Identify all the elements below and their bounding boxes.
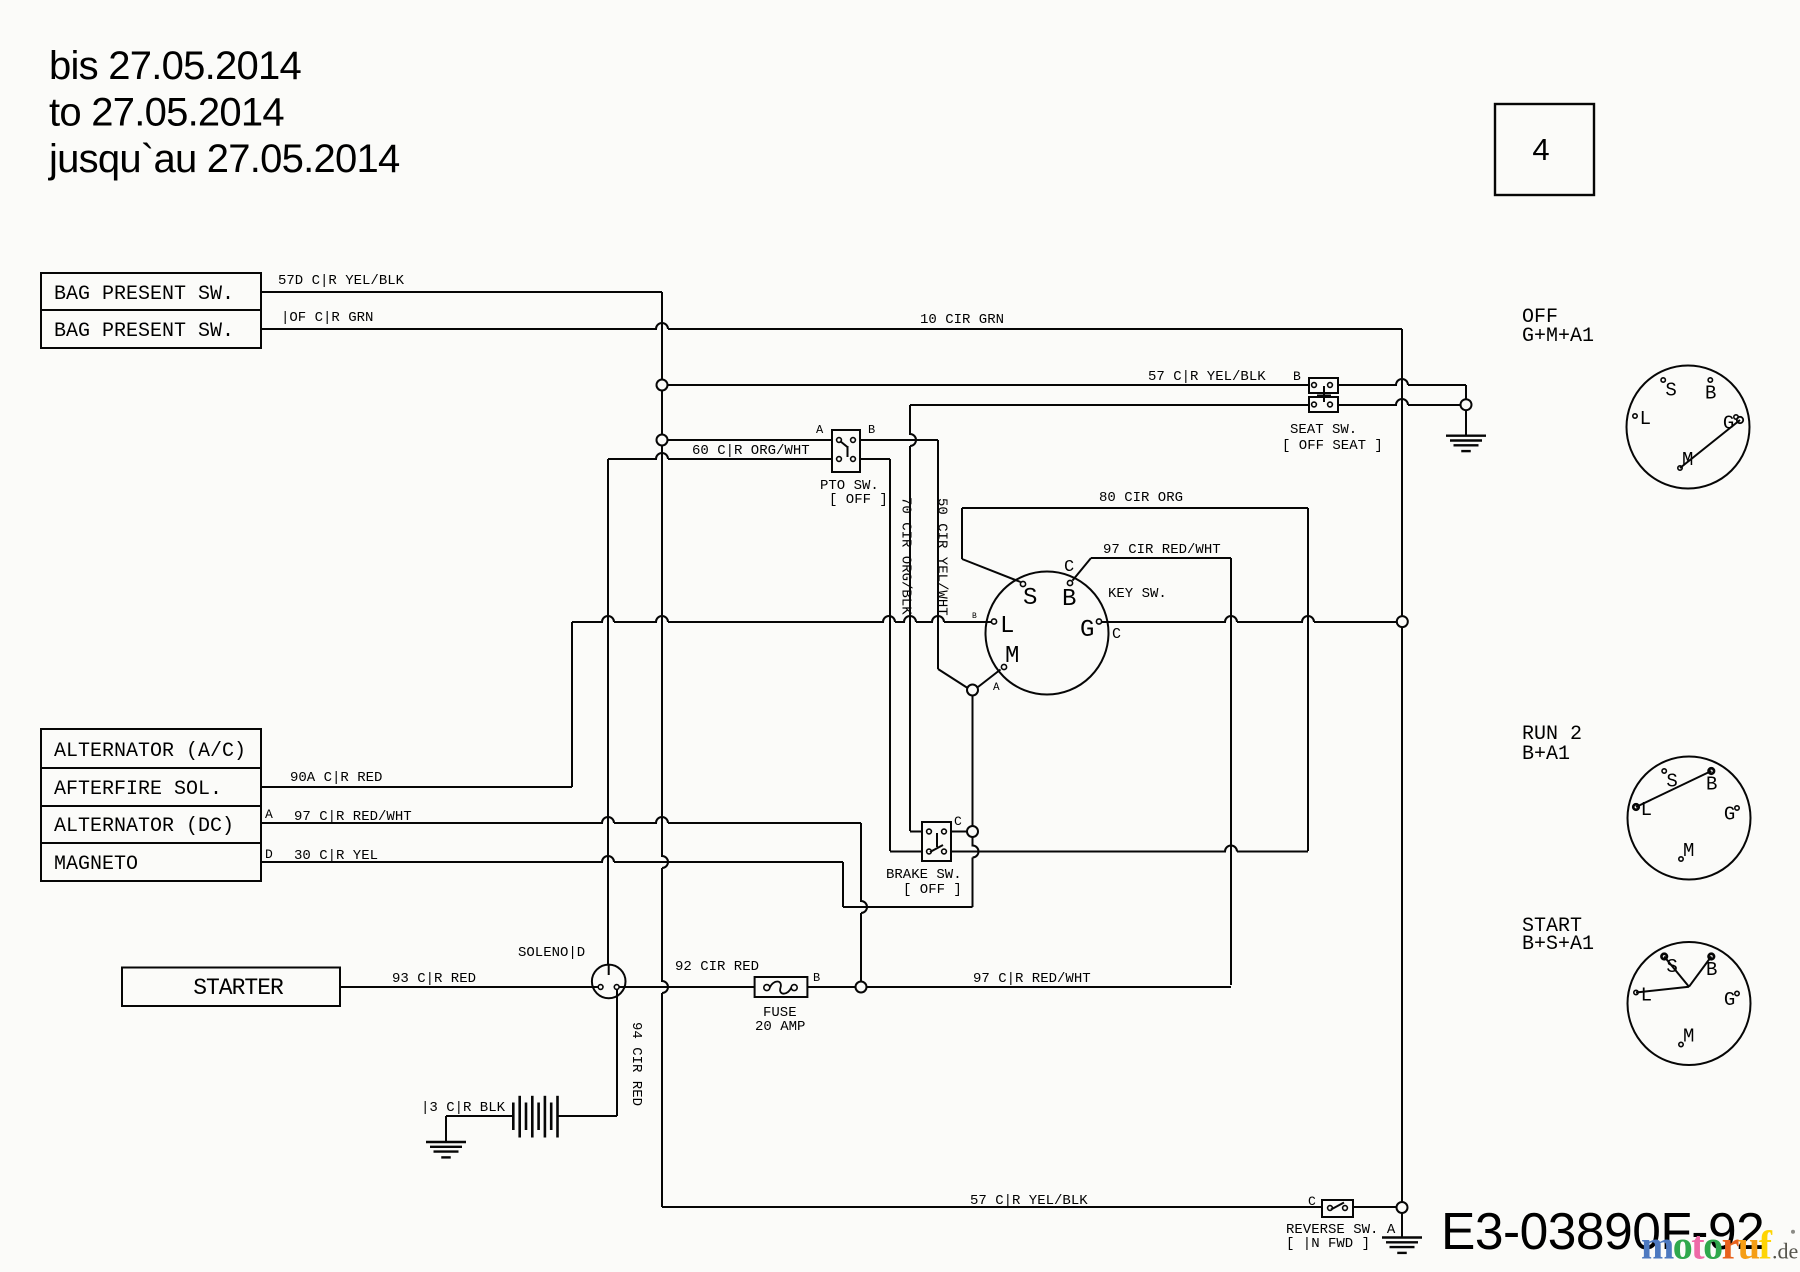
- node G wire / x1404: [1397, 616, 1408, 627]
- svg-text:G+M+A1: G+M+A1: [1522, 325, 1594, 348]
- key switch pin G: [1096, 619, 1101, 624]
- solenoid circle: [592, 965, 626, 999]
- svg-text:o: o: [1673, 1223, 1693, 1268]
- svg-text:B: B: [1706, 774, 1717, 796]
- bus x608 PTO-feed to solenoid: [607, 459, 609, 965]
- wire L feed horizontal: [572, 616, 991, 622]
- svg-text:L: L: [1641, 985, 1652, 1007]
- svg-text:bis 27.05.2014: bis 27.05.2014: [49, 44, 301, 88]
- fuse box: [755, 977, 808, 997]
- bus 57D vertical x662: [661, 292, 663, 380]
- svg-text:A: A: [816, 423, 824, 437]
- fuse element: [764, 985, 770, 991]
- svg-text:57D C|R YEL/BLK: 57D C|R YEL/BLK: [278, 273, 405, 289]
- svg-text:STARTER: STARTER: [193, 975, 284, 1001]
- key switch pin B: [1067, 580, 1072, 585]
- seat switch box bottom: [1309, 397, 1338, 412]
- svg-text:ALTERNATOR (A/C): ALTERNATOR (A/C): [54, 740, 246, 763]
- svg-text:94 CIR RED: 94 CIR RED: [628, 1022, 644, 1106]
- wire solenoid to fuse: [620, 986, 755, 988]
- svg-text:.de: .de: [1772, 1239, 1798, 1264]
- wire x910 corner to brake: [910, 831, 922, 833]
- svg-text:97 CIR RED/WHT: 97 CIR RED/WHT: [1103, 542, 1221, 558]
- svg-text:93 C|R RED: 93 C|R RED: [392, 971, 476, 987]
- label 94 CIR RED: [628, 1022, 644, 1106]
- svg-text:C: C: [954, 814, 962, 829]
- svg-text:f: f: [1759, 1223, 1773, 1268]
- svg-text:B: B: [1705, 383, 1716, 405]
- wire 57 bottom: [662, 1206, 1322, 1208]
- bus 70 CIR ORG/BLK x890: [889, 459, 891, 851]
- svg-text:S: S: [1023, 585, 1037, 612]
- wire 70-feed to PTO bottom-left: [608, 453, 832, 459]
- node 57D/60 junction: [657, 435, 668, 446]
- wire seat top right to corner: [1338, 379, 1466, 385]
- svg-text:MAGNETO: MAGNETO: [54, 853, 138, 876]
- svg-text:B+A1: B+A1: [1522, 743, 1570, 766]
- wire 90A afterfire: [261, 786, 572, 788]
- svg-text:D: D: [265, 847, 273, 862]
- svg-text:B: B: [972, 612, 977, 621]
- wire 57D horizontal: [261, 291, 662, 293]
- svg-text:o: o: [1703, 1223, 1723, 1268]
- bus 94 CIR RED riser: [616, 990, 618, 1116]
- seat ground stem: [1465, 410, 1467, 436]
- svg-text:jusqu`au 27.05.2014: jusqu`au 27.05.2014: [48, 137, 400, 181]
- svg-text:B: B: [1293, 369, 1301, 384]
- svg-text:|OF C|R GRN: |OF C|R GRN: [281, 310, 373, 326]
- bus node down to brake C: [972, 696, 974, 826]
- wire battery negative: [446, 1115, 513, 1117]
- svg-text:A: A: [265, 807, 273, 822]
- svg-text:B: B: [813, 971, 820, 985]
- svg-text:L: L: [1000, 613, 1014, 640]
- node 57D/57 junction: [657, 380, 668, 391]
- svg-text:G: G: [1080, 617, 1094, 644]
- box MAGNETO: [41, 843, 261, 881]
- wire x890 corner to brake: [890, 851, 922, 853]
- wire 80 CIR ORG left drop: [961, 508, 963, 559]
- wire G out to node: [1102, 616, 1397, 622]
- svg-text:C: C: [1064, 558, 1074, 577]
- wire node 57D to seat: [668, 384, 1310, 386]
- svg-text:L: L: [1640, 408, 1651, 430]
- svg-text:60 C|R ORG/WHT: 60 C|R ORG/WHT: [692, 443, 810, 459]
- bus 50 CIR YEL/WHT x910: [910, 405, 916, 831]
- box BAG PRESENT SW 1: [41, 273, 261, 310]
- wire seat bottom left: [910, 404, 1309, 406]
- svg-text:BAG PRESENT SW.: BAG PRESENT SW.: [54, 283, 234, 306]
- bus x1402 main right vertical: [1401, 329, 1403, 616]
- box ALTERNATOR (A/C): [41, 729, 261, 768]
- wire M diagonal to node: [978, 670, 1001, 688]
- wire 97 CIR RED/WHT top: [1091, 557, 1231, 559]
- wire node to PTO A: [668, 439, 833, 441]
- svg-text:SOLENO|D: SOLENO|D: [518, 945, 585, 961]
- battery ground stem: [445, 1116, 447, 1142]
- wire reverse to node: [1353, 1206, 1397, 1208]
- svg-text:4: 4: [1532, 132, 1549, 167]
- brake C node: [967, 826, 978, 837]
- bus brake node down to magneto loop: [973, 837, 979, 907]
- svg-text:u: u: [1738, 1223, 1760, 1268]
- wire 97 bottom: [867, 986, 1232, 988]
- svg-text:C: C: [1308, 1194, 1316, 1209]
- seat switch box top: [1309, 378, 1338, 393]
- key switch circle: [986, 572, 1109, 695]
- solenoid pins: [598, 985, 603, 990]
- svg-text:[ |N FWD ]: [ |N FWD ]: [1286, 1236, 1370, 1252]
- label 70 CIR ORG/BLK: [898, 497, 914, 615]
- bus x572 90A riser: [571, 622, 573, 787]
- svg-text:AFTERFIRE SOL.: AFTERFIRE SOL.: [54, 778, 222, 801]
- svg-text:70 CIR ORG/BLK: 70 CIR ORG/BLK: [898, 497, 914, 615]
- bus x938 PTO-B drop: [937, 440, 939, 669]
- svg-text:[ OFF SEAT ]: [ OFF SEAT ]: [1282, 438, 1383, 454]
- reverse switch box: [1322, 1200, 1353, 1217]
- page number box 4: [1495, 104, 1594, 195]
- svg-text:m: m: [1641, 1223, 1674, 1268]
- svg-text:G: G: [1724, 804, 1735, 826]
- svg-text:80 CIR ORG: 80 CIR ORG: [1099, 490, 1183, 506]
- wire starter to solenoid: [340, 986, 598, 988]
- node M junction: [967, 685, 978, 696]
- box ALTERNATOR (DC): [41, 806, 261, 843]
- box STARTER: [122, 968, 340, 1007]
- node reverse junction: [1397, 1202, 1408, 1213]
- svg-text:B+S+A1: B+S+A1: [1522, 933, 1594, 956]
- battery cells: [512, 1103, 515, 1131]
- svg-text:57 C|R YEL/BLK: 57 C|R YEL/BLK: [1148, 369, 1266, 385]
- svg-text:BAG PRESENT SW.: BAG PRESENT SW.: [54, 320, 234, 343]
- svg-text:SEAT SW.: SEAT SW.: [1290, 422, 1357, 438]
- wire 10 CIR GRN horizontal: [261, 323, 1402, 329]
- wire 80 CIR ORG top: [962, 507, 1308, 509]
- wire battery positive: [558, 1115, 618, 1117]
- svg-text:10 CIR GRN: 10 CIR GRN: [920, 312, 1004, 328]
- svg-text:[ OFF ]: [ OFF ]: [903, 882, 962, 898]
- solenoid top lead: [608, 965, 610, 975]
- brake switch lever: [936, 833, 938, 847]
- svg-text:M: M: [1683, 840, 1694, 862]
- svg-text:97 C|R RED/WHT: 97 C|R RED/WHT: [973, 971, 1091, 987]
- svg-text:90A C|R RED: 90A C|R RED: [290, 770, 382, 786]
- wire seat corner down to ground node: [1465, 385, 1467, 400]
- brake switch box: [922, 822, 951, 861]
- wire brake bottom right to 80 CIR: [951, 846, 1308, 852]
- seat switch pins: [1312, 383, 1317, 388]
- key switch pin S: [1020, 581, 1025, 586]
- reverse switch pins: [1328, 1206, 1333, 1211]
- pto switch lever: [840, 441, 848, 448]
- svg-text:[ OFF ]: [ OFF ]: [829, 492, 888, 508]
- svg-text:ALTERNATOR (DC): ALTERNATOR (DC): [54, 815, 234, 838]
- svg-text:G: G: [1724, 989, 1735, 1011]
- bus x1308 80-CIR vertical: [1307, 508, 1309, 851]
- key position OFF circle: [1627, 366, 1750, 489]
- key position RUN 2 circle: [1628, 757, 1751, 880]
- seat ground node: [1461, 399, 1472, 410]
- wire 97 alternator dc: [261, 817, 861, 823]
- svg-text:to 27.05.2014: to 27.05.2014: [49, 91, 284, 135]
- svg-text:A: A: [993, 682, 1000, 694]
- bus magneto loop left riser: [842, 862, 844, 907]
- reverse ground stem: [1401, 1213, 1403, 1238]
- svg-text:|3 C|R BLK: |3 C|R BLK: [421, 1100, 506, 1116]
- seat switch lever: [1323, 386, 1325, 402]
- wire PTO B to corner: [860, 439, 938, 441]
- pto switch pins: [837, 438, 842, 443]
- reverse ground symbol: [1382, 1236, 1422, 1238]
- box AFTERFIRE SOL.: [41, 768, 261, 806]
- wire brake pin to node: [951, 831, 967, 833]
- svg-text:C: C: [1112, 626, 1121, 643]
- bus x861 alternator dc drop: [861, 823, 867, 982]
- box BAG PRESENT SW 2: [41, 310, 261, 348]
- wire magneto loop bottom: [843, 906, 973, 908]
- seat ground symbol: [1446, 435, 1486, 437]
- svg-text:B: B: [1062, 586, 1076, 613]
- key switch pin L: [991, 619, 996, 624]
- node fuse B junction: [856, 982, 867, 993]
- key position START circle: [1628, 942, 1751, 1065]
- wire fuse to node: [807, 986, 855, 988]
- key switch pin M: [1001, 664, 1006, 669]
- svg-text:M: M: [1683, 1025, 1694, 1047]
- svg-text:B: B: [868, 423, 875, 437]
- bus x1231 97-CIR vertical: [1230, 558, 1232, 985]
- svg-text:20 AMP: 20 AMP: [755, 1019, 805, 1035]
- svg-text:S: S: [1665, 380, 1676, 402]
- pto switch box: [832, 430, 860, 472]
- wire 30 magneto: [261, 856, 843, 862]
- svg-text:KEY SW.: KEY SW.: [1108, 586, 1167, 602]
- battery ground symbol: [426, 1141, 466, 1143]
- label 50 CIR YEL/WHT: [934, 498, 950, 616]
- svg-text:50 CIR YEL/WHT: 50 CIR YEL/WHT: [934, 498, 950, 616]
- brake switch pins: [927, 829, 932, 834]
- svg-text:BRAKE SW.: BRAKE SW.: [886, 867, 962, 883]
- reverse switch lever: [1331, 1203, 1344, 1210]
- svg-text:M: M: [1005, 643, 1019, 670]
- wire seat bottom right to ground node: [1338, 399, 1461, 405]
- svg-text:92 CIR RED: 92 CIR RED: [675, 959, 759, 975]
- wire PTO bottom-right to corner: [860, 458, 890, 460]
- svg-text:r: r: [1722, 1223, 1740, 1268]
